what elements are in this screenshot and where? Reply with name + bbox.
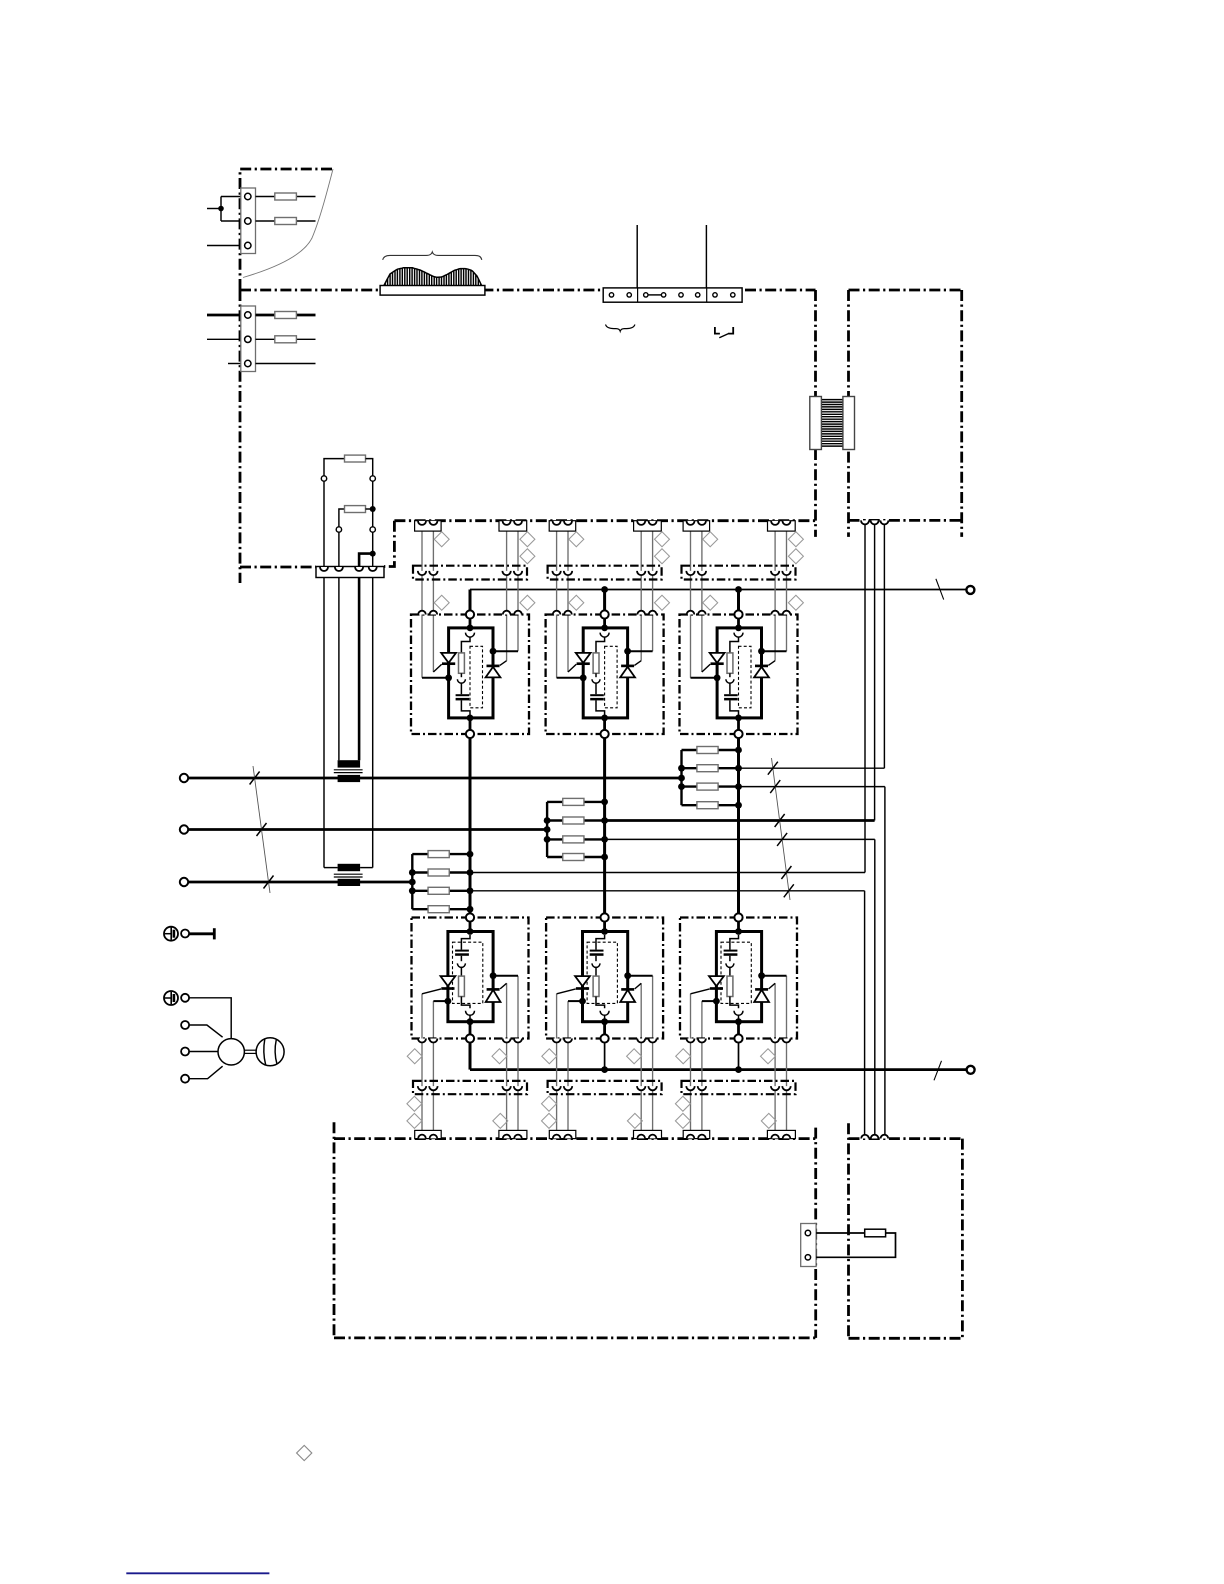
sense wire W2 (bottom) [605,838,875,840]
protective earth symbol 1 [164,927,178,941]
terminal block X6 [801,1224,816,1267]
fan supply terminal 1 [181,1021,189,1029]
wire L1 [188,777,681,780]
ribbon cable between cabinet and control board [821,399,843,401]
sense wire W1 (top) [470,872,865,874]
fuse F4 [256,338,316,340]
phase column riser [737,590,740,615]
phase column riser [603,590,606,615]
PE terminal [181,930,189,938]
enclosure: main power cabinet [240,289,816,292]
supply terminal L2 [180,825,188,833]
torn-edge curve [243,169,333,278]
pulse feed (bold) [359,554,373,567]
plug contacts [321,476,326,481]
terminal strip X10 [603,288,742,302]
enclosure: upper-left detail box [240,169,333,290]
terminal block X2 [207,314,241,317]
sense wire W1 (bottom) [470,890,865,892]
sense wire W3 (top) [739,767,885,769]
fan supply terminal 2 [181,1048,189,1056]
sense wire W3 (bottom) [739,786,885,788]
thyristor module column 3 (bottom) [675,913,797,1138]
phase column riser [469,590,472,615]
fuse bank [411,854,413,909]
supply terminal L1 [180,774,188,782]
revision underline (blue) [126,1572,269,1574]
thyristor module column 3 (top) [680,521,804,738]
fuse F3 [256,314,316,317]
wires to strip [636,225,638,288]
supply terminal L3 [180,878,188,886]
connector X5 [316,567,384,578]
control board connector bumps [861,520,869,524]
shaft coupling [245,1049,256,1051]
fuse F1 [256,196,316,198]
enclosure: lower-right box [847,1123,850,1338]
thyristor module column 2 (bottom) [542,913,664,1138]
fan supply terminal 3 [181,1075,189,1083]
door contact switch [715,327,720,334]
fan impeller [256,1038,284,1066]
cable marker (sense) [772,758,791,900]
cable marker (input) [253,766,270,893]
terminal block X1 [221,196,241,198]
enclosure: control board (top right) [849,289,962,292]
wire L3 [188,881,412,884]
fuse bank [546,802,548,857]
bus from top modules to terminal [470,589,966,591]
bottom bus to external terminal [470,1068,966,1071]
brace over heatsink [383,252,482,260]
group brace marker [606,325,635,332]
sense wire W2 (top, bold) [605,819,875,822]
resistor R1 [324,459,345,479]
wire L2 [188,828,547,831]
heatsink base plate [380,286,485,296]
lone diamond marker [297,1445,312,1460]
thyristor module column 1 (bottom) [407,913,529,1138]
current transformer T1 [338,760,361,767]
resistor R2 [339,509,345,530]
fan motor M1 [218,1039,244,1065]
cable marker [936,579,944,600]
cable marker [934,1061,942,1081]
thyristor module column 2 (top) [546,521,670,738]
wires to current transformers [323,578,325,868]
protective earth symbol 2 [164,991,178,1005]
external terminal (bottom) [967,1066,975,1074]
PE terminal (fan circuit) [181,994,189,1002]
heater resistor circuit [816,1232,865,1234]
PE busbar [189,932,214,935]
enclosure: lower-left cabinet [333,1122,336,1338]
external terminal (top) [966,586,974,594]
fuse bank [680,750,682,805]
thyristor module column 1 (top) [411,521,535,738]
current transformer T2 [324,867,338,869]
fuse F2 [256,220,316,222]
heatsink fins [384,283,386,285]
